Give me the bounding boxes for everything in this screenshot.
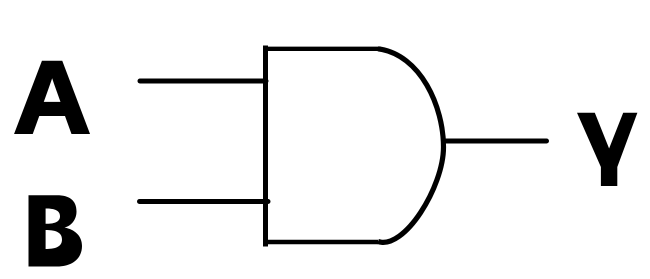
AND gate U1: bottom edge xyxy=(263,240,378,245)
AND gate U1: right curved edge xyxy=(378,49,444,243)
svg-text:A: A xyxy=(14,41,91,154)
AND gate U1: left vertical edge xyxy=(263,46,268,247)
wire: gate output to Y xyxy=(444,139,547,144)
node Y label xyxy=(577,113,637,186)
wire: input A to gate xyxy=(140,79,266,84)
AND gate U1: top edge xyxy=(263,47,381,51)
node A label xyxy=(14,41,91,154)
node B label xyxy=(29,195,83,266)
wire: input B to gate xyxy=(140,199,269,204)
